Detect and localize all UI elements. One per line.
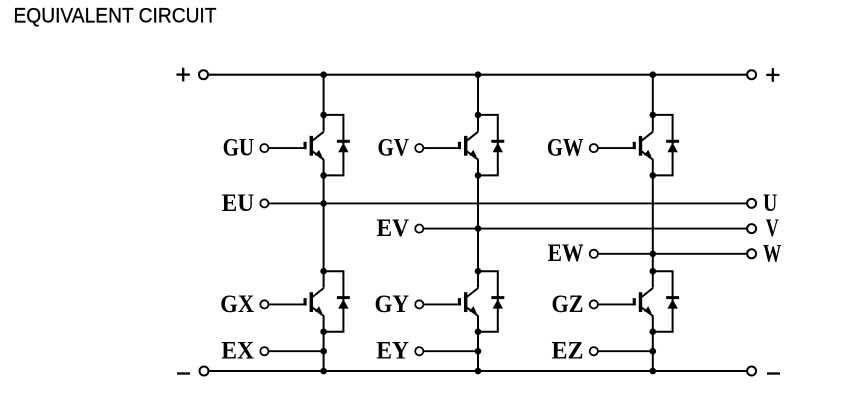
- junction P rail / leg W: [650, 71, 657, 78]
- wire leg V: P rail to upper collector: [477, 75, 479, 115]
- diode DW2 (freewheel): [653, 271, 679, 332]
- node lower collector V: [475, 268, 482, 275]
- diode DV1 (freewheel): [478, 115, 504, 175]
- label + right: [766, 68, 779, 82]
- terminal EU: [260, 199, 268, 207]
- diode DU1 (freewheel): [324, 115, 350, 175]
- svg-text:GU: GU: [223, 135, 255, 162]
- wire leg W: lower emitter to N rail: [652, 332, 654, 371]
- wire leg V: emitter to lower collector (output node): [477, 175, 479, 271]
- junction N rail / leg V: [475, 368, 482, 375]
- transistor QV2 (IGBT): [458, 271, 478, 332]
- svg-text:GY: GY: [375, 291, 410, 318]
- terminal GW: [590, 144, 598, 152]
- junction P rail / leg U: [320, 71, 327, 78]
- diode DW1 (freewheel): [653, 115, 679, 175]
- junction EX / leg U: [320, 348, 327, 355]
- svg-text:EX: EX: [221, 338, 254, 365]
- svg-text:GX: GX: [220, 291, 254, 318]
- wire GY gate lead: [423, 303, 460, 305]
- wire EX emitter sense: [269, 350, 324, 352]
- node upper emitter W: [650, 172, 657, 179]
- junction EZ / leg W: [650, 348, 657, 355]
- junction P rail / leg V: [475, 71, 482, 78]
- svg-text:EQUIVALENT CIRCUIT: EQUIVALENT CIRCUIT: [14, 3, 217, 27]
- wire EV to output V: [423, 228, 751, 230]
- node upper collector U: [320, 112, 327, 119]
- wire P rail (+): [204, 74, 752, 76]
- wire GZ gate lead: [598, 303, 636, 305]
- svg-text:V: V: [766, 215, 779, 242]
- terminal GV: [415, 144, 423, 152]
- svg-text:EU: EU: [222, 190, 255, 217]
- label - left: [177, 372, 190, 374]
- junction EW / leg W: [650, 251, 657, 258]
- node upper collector W: [650, 112, 657, 119]
- terminal EZ: [590, 347, 598, 355]
- node lower emitter U: [320, 328, 327, 335]
- wire leg U: emitter to lower collector (output node): [323, 175, 325, 271]
- label + left: [176, 68, 190, 82]
- transistor QW1 (IGBT): [633, 115, 653, 175]
- label - right: [767, 372, 780, 374]
- wire EW to output W: [598, 253, 752, 255]
- node lower emitter V: [475, 328, 482, 335]
- wire GU gate lead: [269, 147, 307, 149]
- terminal - left: [200, 367, 209, 376]
- wire leg U: P rail to upper collector: [323, 75, 325, 115]
- svg-text:EV: EV: [377, 215, 410, 242]
- wire leg V: lower emitter to N rail: [477, 332, 479, 371]
- transistor QW2 (IGBT): [633, 271, 653, 332]
- node lower collector U: [320, 268, 327, 275]
- node upper emitter U: [320, 172, 327, 179]
- junction EU / leg U: [320, 200, 327, 207]
- diode DU2 (freewheel): [324, 271, 350, 332]
- wire leg W: emitter to lower collector (output node): [652, 175, 654, 271]
- wire leg W: P rail to upper collector: [652, 75, 654, 115]
- wire N rail (-): [204, 370, 752, 372]
- terminal GX: [260, 300, 268, 308]
- junction EV / leg V: [475, 225, 482, 232]
- terminal U: [747, 199, 756, 208]
- wire GX gate lead: [269, 303, 307, 305]
- terminal EX: [260, 347, 268, 355]
- terminal V: [747, 224, 756, 233]
- svg-text:W: W: [763, 240, 781, 267]
- junction N rail / leg U: [320, 368, 327, 375]
- junction N rail / leg W: [650, 368, 657, 375]
- terminal EV: [415, 225, 423, 233]
- svg-text:GW: GW: [547, 135, 584, 162]
- svg-text:GV: GV: [378, 135, 410, 162]
- wire GW gate lead: [598, 147, 636, 149]
- terminal + left: [199, 70, 208, 79]
- svg-text:U: U: [763, 190, 777, 217]
- junction EY / leg V: [475, 348, 482, 355]
- wire EZ emitter sense: [598, 350, 653, 352]
- terminal GY: [415, 300, 423, 308]
- wire EU to output U: [269, 202, 752, 204]
- node lower collector W: [650, 268, 657, 275]
- terminal EW: [590, 250, 598, 258]
- transistor QV1 (IGBT): [458, 115, 478, 175]
- svg-text:EZ: EZ: [552, 338, 584, 365]
- diode DV2 (freewheel): [478, 271, 504, 332]
- wire GV gate lead: [423, 147, 460, 149]
- transistor QU1 (IGBT): [304, 115, 324, 175]
- svg-text:GZ: GZ: [552, 291, 584, 318]
- node upper emitter V: [475, 172, 482, 179]
- node upper collector V: [475, 112, 482, 119]
- wire EY emitter sense: [423, 350, 478, 352]
- transistor QU2 (IGBT): [304, 271, 324, 332]
- svg-text:EW: EW: [548, 240, 584, 267]
- wire leg U: lower emitter to N rail: [323, 332, 325, 371]
- terminal GZ: [590, 300, 598, 308]
- terminal GU: [260, 144, 268, 152]
- terminal W: [747, 249, 756, 258]
- terminal + right: [747, 70, 756, 79]
- terminal - right: [747, 367, 756, 376]
- svg-text:EY: EY: [376, 338, 409, 365]
- node lower emitter W: [650, 328, 657, 335]
- terminal EY: [415, 347, 423, 355]
